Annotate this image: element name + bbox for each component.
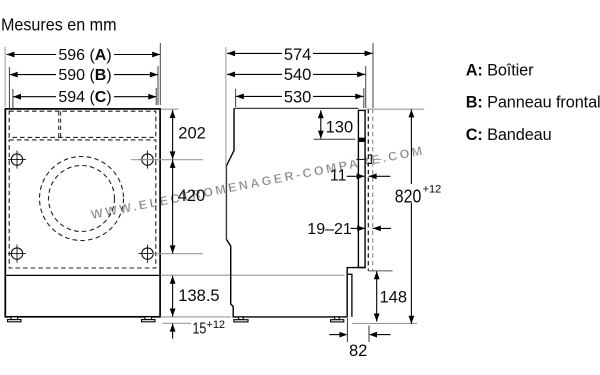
- dim 15+12: [170, 319, 225, 339]
- front left foot: [8, 317, 22, 322]
- dashed band divider: [58, 111, 60, 137]
- svg-text:148: 148: [380, 289, 408, 307]
- front door bar: [358, 110, 365, 267]
- extension lines A/B/C left: [4, 47, 6, 107]
- bandeau black block: [358, 138, 365, 142]
- dim 590 (B): [10, 67, 158, 84]
- hole level line across bar: [356, 158, 365, 160]
- svg-text:590 (B): 590 (B): [58, 67, 111, 84]
- svg-text:C: Bandeau: C: Bandeau: [466, 126, 552, 144]
- dim 11: [330, 168, 390, 185]
- gray ref hole line bottom: [152, 253, 203, 255]
- dashed front panel rect: [9, 140, 156, 268]
- svg-text:15: 15: [193, 321, 207, 338]
- side back foot: [234, 317, 248, 322]
- plinth line front view: [5, 274, 160, 276]
- dim 82: [329, 318, 390, 360]
- dim 148: [374, 271, 407, 321]
- gray ref feet bottom left: [163, 322, 192, 324]
- hinge tab: [368, 155, 371, 164]
- plinth lip: [348, 274, 352, 317]
- svg-text:11: 11: [330, 168, 347, 185]
- side front foot: [331, 317, 344, 322]
- side top edge: [234, 107, 359, 109]
- dim 574: [227, 46, 373, 64]
- dim 540: [227, 66, 365, 84]
- svg-text:540: 540: [284, 66, 312, 84]
- furniture door dashed outer (gray): [372, 109, 374, 271]
- gray ref top line to 820: [366, 108, 425, 110]
- svg-text:202: 202: [178, 125, 206, 143]
- hole top-left: [8, 151, 26, 169]
- 148 top ref line: [368, 270, 392, 272]
- watermark band: [90, 143, 426, 222]
- svg-text:530: 530: [284, 89, 312, 107]
- ext lines 574/540/530 right: [372, 43, 374, 108]
- side back profile: [226, 108, 347, 317]
- hole level line gray right: [374, 158, 382, 160]
- svg-text:19–21: 19–21: [307, 221, 352, 238]
- svg-text:+12: +12: [423, 183, 442, 195]
- gray ref line machine top right: [161, 108, 179, 110]
- dim 138.5: [170, 276, 220, 317]
- dim 19-21: [307, 221, 391, 238]
- dim 596 (A): [6, 47, 160, 64]
- svg-text:420: 420: [178, 187, 206, 205]
- svg-text:138.5: 138.5: [178, 287, 219, 305]
- bar bottom step: [347, 268, 365, 317]
- dim 530: [236, 89, 363, 107]
- svg-text:A: Boîtier: A: Boîtier: [466, 61, 534, 79]
- dim 820+12: [394, 109, 441, 323]
- gray ext line back: [225, 47, 227, 240]
- gray ref machine bottom bridge: [161, 316, 232, 318]
- gray ref hole line top: [131, 159, 203, 161]
- gray ref feet bottom right: [352, 322, 417, 324]
- hole top-right: [139, 151, 157, 169]
- dashed band (bandeau): [9, 111, 156, 137]
- dim 130: [314, 110, 356, 139]
- extension lines A/B/C right: [159, 43, 161, 105]
- dim 594 (C): [13, 89, 156, 106]
- svg-text:82: 82: [349, 342, 367, 360]
- dim 202: [170, 110, 206, 159]
- svg-text:594 (C): 594 (C): [58, 89, 111, 106]
- ext line 530 left: [235, 89, 237, 107]
- front case outline: [5, 109, 160, 317]
- dashed door circle inner: [49, 166, 115, 232]
- svg-text:820: 820: [395, 185, 422, 206]
- gray ref plinth line: [161, 274, 345, 276]
- hole bottom-right: [139, 245, 157, 263]
- dim 420: [170, 160, 205, 254]
- svg-text:+12: +12: [206, 319, 225, 331]
- svg-text:574: 574: [284, 46, 312, 64]
- front right foot: [142, 317, 156, 322]
- svg-text:B: Panneau frontal: B: Panneau frontal: [466, 93, 600, 111]
- svg-text:130: 130: [326, 119, 354, 137]
- dashed door circle outer: [40, 157, 124, 241]
- svg-text:Mesures en mm: Mesures en mm: [1, 15, 117, 35]
- furniture door dashed inner: [367, 109, 369, 271]
- svg-text:596 (A): 596 (A): [58, 47, 111, 64]
- hole bottom-left: [8, 245, 26, 263]
